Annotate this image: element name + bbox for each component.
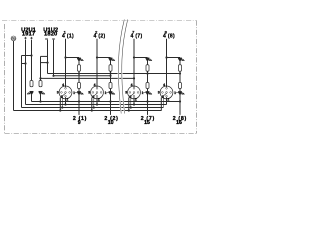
svg-text:2: 2 — [167, 97, 169, 101]
svg-text:1820: 1820 — [44, 32, 57, 38]
svg-text:10: 10 — [108, 120, 114, 126]
svg-text:4 (7): 4 (7) — [131, 34, 143, 40]
svg-text:4 (8): 4 (8) — [163, 34, 175, 40]
svg-text:1917: 1917 — [22, 32, 35, 38]
svg-text:16: 16 — [176, 120, 182, 126]
svg-text:3: 3 — [125, 91, 127, 95]
svg-text:4: 4 — [62, 83, 64, 87]
svg-text:2: 2 — [135, 97, 137, 101]
svg-text:4: 4 — [131, 83, 133, 87]
svg-text:4 (1): 4 (1) — [62, 34, 74, 40]
svg-text:4: 4 — [163, 83, 165, 87]
svg-text:1: 1 — [105, 91, 107, 95]
svg-text:2: 2 — [66, 97, 68, 101]
svg-text:3: 3 — [57, 91, 59, 95]
svg-text:2: 2 — [98, 97, 100, 101]
svg-text:4 (2): 4 (2) — [94, 34, 106, 40]
svg-text:1: 1 — [174, 91, 176, 95]
svg-text:1: 1 — [73, 91, 75, 95]
svg-text:3: 3 — [88, 91, 90, 95]
svg-text:1: 1 — [142, 91, 144, 95]
svg-text:15: 15 — [144, 120, 150, 126]
svg-text:4: 4 — [94, 83, 96, 87]
svg-text:3: 3 — [158, 91, 160, 95]
svg-text:9: 9 — [78, 120, 81, 126]
